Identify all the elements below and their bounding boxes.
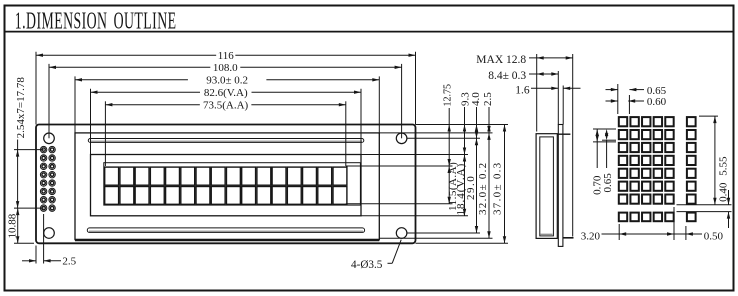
detail right extension lines xyxy=(677,116,732,212)
dimension 0.65 (dot height) xyxy=(602,129,614,193)
svg-text:10.88: 10.88 xyxy=(7,213,19,238)
PCB outline (front view) xyxy=(36,125,416,244)
display window (V.A) outline xyxy=(91,155,362,216)
dimension MAX 12.8 xyxy=(476,54,572,66)
detail left extension ticks xyxy=(593,129,616,142)
svg-text:3.20: 3.20 xyxy=(581,231,601,243)
cursor row dots xyxy=(619,213,674,222)
dimension 2.54x7=17.78 xyxy=(15,77,27,209)
svg-text:73.5(A.A): 73.5(A.A) xyxy=(203,99,249,111)
dimension 12.75 and 11.5(A.A) xyxy=(443,84,460,211)
dimension 5.55 xyxy=(713,116,729,205)
svg-text:2.5: 2.5 xyxy=(62,255,76,267)
svg-text:108.0: 108.0 xyxy=(213,62,238,74)
svg-text:1.6: 1.6 xyxy=(515,84,530,96)
dimension 0.70 (row pitch) xyxy=(591,129,603,195)
dimension 8.4±0.3 xyxy=(488,70,558,82)
svg-text:0.50: 0.50 xyxy=(704,231,724,243)
bezel top slot xyxy=(88,139,364,143)
mounting hole bottom-left xyxy=(44,228,55,239)
title divider line xyxy=(5,31,734,33)
adjacent character column dots xyxy=(687,117,696,221)
svg-text:5.55: 5.55 xyxy=(717,156,729,176)
display inner glass outline xyxy=(104,163,361,205)
svg-text:4-Ø3.5: 4-Ø3.5 xyxy=(351,259,383,271)
dimension 37.0±0.3 xyxy=(492,125,507,244)
svg-text:2.5: 2.5 xyxy=(482,92,494,106)
callout 4-Ø3.5 xyxy=(351,240,401,271)
dimension 1.6 xyxy=(515,84,580,96)
dimension 73.5(A.A) xyxy=(105,99,345,111)
dot matrix 5x7 grid xyxy=(619,117,674,204)
character cells 16x2 xyxy=(105,167,347,204)
svg-text:0.65: 0.65 xyxy=(647,85,667,97)
mounting hole top-left xyxy=(44,133,55,144)
bezel bottom edge (thick) xyxy=(75,239,379,241)
svg-text:MAX 12.8: MAX 12.8 xyxy=(476,54,526,66)
svg-text:0.40: 0.40 xyxy=(717,182,729,202)
side view PCB bar xyxy=(558,125,563,247)
dimension 2.5 and 32.0±0.2 xyxy=(477,92,494,238)
dimension 9.3 and 18.4(V.A) xyxy=(455,92,472,216)
right extension lines xyxy=(346,125,508,244)
dimension 10.88 xyxy=(7,208,20,243)
extension lines above front view xyxy=(36,52,416,166)
svg-text:82.6(V.A): 82.6(V.A) xyxy=(204,87,248,99)
side view extension lines xyxy=(537,54,573,237)
bezel bottom slot xyxy=(87,228,364,233)
dimension 2.5 (pin offset) xyxy=(22,214,77,267)
mounting hole top-right xyxy=(396,133,407,144)
side view bottom tab xyxy=(563,237,574,239)
svg-text:29.0: 29.0 xyxy=(465,175,477,200)
svg-text:8.4± 0.3: 8.4± 0.3 xyxy=(488,70,526,82)
detail top extension lines xyxy=(618,84,630,114)
svg-text:4.0: 4.0 xyxy=(470,92,482,106)
dimension 0.60 (dot width) xyxy=(606,96,667,108)
dimension 82.6(V.A) xyxy=(91,87,362,99)
side view bezel outline xyxy=(536,134,557,239)
dimension 93.0±0.2 xyxy=(75,74,379,86)
bezel outline xyxy=(75,133,379,240)
svg-text:0.65: 0.65 xyxy=(602,173,614,193)
dimension 0.40 xyxy=(717,182,730,228)
svg-text:93.0± 0.2: 93.0± 0.2 xyxy=(206,74,248,86)
title: 1.DIMENSION OUTLINE xyxy=(15,7,177,34)
svg-text:116: 116 xyxy=(218,50,235,62)
side view bezel inner line xyxy=(540,137,554,236)
dimension 0.50 xyxy=(674,231,723,243)
dimension 108.0 xyxy=(49,62,402,74)
svg-text:37.0± 0.3: 37.0± 0.3 xyxy=(492,162,504,215)
svg-text:12.75: 12.75 xyxy=(443,84,454,107)
svg-text:0.60: 0.60 xyxy=(647,96,667,108)
dimension 3.20 xyxy=(581,231,674,243)
pin row extension lines left xyxy=(14,150,44,244)
dimension 0.65 (dot pitch) xyxy=(606,85,667,97)
detail bottom extension lines xyxy=(619,207,686,240)
side view bezel top tab xyxy=(557,133,570,135)
svg-text:2.54x7=17.78: 2.54x7=17.78 xyxy=(15,77,27,139)
dimension 4.0 and 29.0 xyxy=(465,92,482,233)
dimension 116 xyxy=(36,50,416,62)
pin header holes 2x8 xyxy=(40,146,55,211)
svg-text:1.DIMENSION OUTLINE: 1.DIMENSION OUTLINE xyxy=(15,7,177,34)
mounting hole bottom-right xyxy=(396,228,407,239)
svg-text:32.0± 0.2: 32.0± 0.2 xyxy=(477,162,489,216)
